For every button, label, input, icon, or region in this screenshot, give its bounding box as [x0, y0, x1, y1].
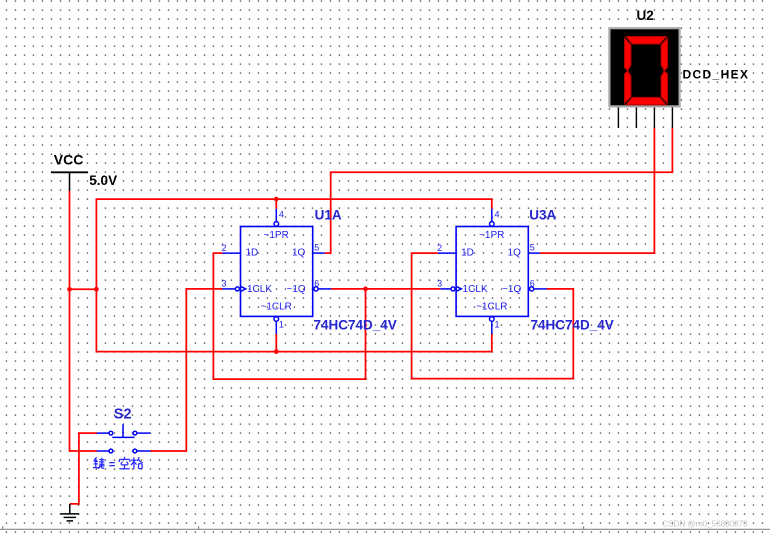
svg-text:2: 2 [222, 243, 227, 253]
U1A pin 4 stub with bubble [274, 209, 279, 226]
svg-text:6: 6 [530, 278, 535, 288]
display pin 2 [635, 108, 637, 129]
svg-text:CSDN @m0_56830873: CSDN @m0_56830873 [662, 518, 748, 528]
junction node VCC-A [67, 287, 72, 292]
ground symbol [60, 504, 79, 521]
display pin 4 [671, 108, 673, 129]
svg-text:2: 2 [437, 243, 442, 253]
svg-text:4: 4 [495, 209, 500, 219]
svg-text:74HC74D_4V: 74HC74D_4V [531, 318, 614, 333]
svg-text:S2: S2 [114, 406, 132, 422]
wire switch top row to ground [70, 433, 97, 504]
svg-text:~1PR: ~1PR [264, 230, 289, 241]
display pin 1 [617, 108, 619, 129]
junction node Qbar-U1A [363, 287, 368, 292]
svg-text:5.0V: 5.0V [89, 173, 117, 188]
U3A pin 3 stub and clock bubble [440, 286, 461, 291]
svg-text:U3A: U3A [529, 208, 556, 223]
svg-text:6: 6 [314, 278, 319, 288]
segment e lower-left [625, 71, 631, 104]
junction node at U1A pin1 [274, 349, 279, 354]
svg-text:1CLK: 1CLK [463, 284, 488, 295]
svg-text:~1PR: ~1PR [479, 230, 504, 241]
svg-text:~1Q: ~1Q [287, 284, 306, 295]
svg-text:3: 3 [222, 278, 227, 288]
wire VCC to switch bottom row [70, 289, 97, 451]
label key equals space (CJK drawn as paths) [93, 457, 143, 470]
segment f upper-left [625, 38, 631, 70]
wire stub to U1A pin4 [275, 199, 277, 209]
svg-text:1D: 1D [246, 248, 259, 259]
svg-text:~1CLR: ~1CLR [261, 302, 292, 313]
switch S2 [97, 424, 151, 453]
svg-text:1Q: 1Q [292, 248, 306, 259]
sheet border bottom [0, 526, 770, 529]
U1A pin 2 stub [222, 252, 240, 254]
wire U1A Qbar to U3A CLK [331, 288, 440, 290]
flip-flop U1A box [241, 227, 313, 317]
svg-text:1CLK: 1CLK [247, 284, 272, 295]
segment b upper-right [661, 38, 667, 70]
U3A pin 1 stub with bubble [490, 317, 495, 334]
svg-text:1D: 1D [461, 248, 474, 259]
wire stub to U1A pin1 [275, 334, 277, 352]
U3A pin numbers [437, 209, 535, 329]
svg-text:5: 5 [530, 242, 535, 252]
U1A pin numbers [222, 209, 320, 329]
U1A inner pin names [246, 230, 306, 313]
wire U3A D feedback loop [412, 253, 574, 379]
wire VCC rail to preset pins [96, 199, 491, 289]
wire U3A Q to display pin [540, 128, 654, 253]
U3A inner pin names [461, 230, 521, 313]
U3A pin 6 stub with bubble [530, 287, 547, 291]
U1A pin 5 stub [313, 252, 325, 254]
wire CLR rail [96, 289, 491, 351]
svg-text:U1A: U1A [315, 208, 342, 223]
svg-text:DCD_HEX: DCD_HEX [683, 68, 750, 82]
svg-text:~1Q: ~1Q [502, 284, 521, 295]
seven segment display U2 body [609, 28, 679, 106]
U3A pin 5 stub [528, 252, 540, 254]
U1A pin 1 stub with bubble [274, 317, 279, 334]
svg-text:U2: U2 [637, 8, 654, 23]
wire U1A Q to display pin [325, 128, 673, 253]
segment c lower-right [661, 71, 667, 104]
wire switch bottom row to U1A CLK [151, 289, 223, 451]
U3A pin 2 stub [438, 252, 456, 254]
U1A pin 3 stub and clock bubble [222, 286, 245, 291]
power VCC symbol [51, 152, 117, 192]
wire U1A D feedback loop [213, 253, 365, 379]
svg-text:~1CLR: ~1CLR [476, 302, 507, 313]
display pin 3 [653, 108, 655, 129]
U1A pin 6 stub with bubble [314, 287, 331, 291]
segment a top [626, 37, 666, 44]
junction node VCC-B [94, 287, 99, 292]
svg-text:74HC74D_4V: 74HC74D_4V [314, 318, 397, 333]
svg-text:1: 1 [279, 320, 284, 330]
segment d bottom [626, 97, 666, 104]
wire VCC stem down to junction [69, 191, 71, 289]
svg-text:VCC: VCC [54, 152, 84, 168]
svg-text:5: 5 [314, 242, 319, 252]
flip-flop U3A box [456, 227, 528, 317]
U3A pin 4 stub with bubble [490, 209, 495, 226]
svg-text:3: 3 [437, 278, 442, 288]
svg-text:4: 4 [279, 209, 284, 219]
junction node at U1A pin4 [274, 197, 279, 202]
svg-text:1: 1 [495, 320, 500, 330]
svg-text:1Q: 1Q [508, 248, 522, 259]
wire junction A to junction B [70, 288, 97, 290]
